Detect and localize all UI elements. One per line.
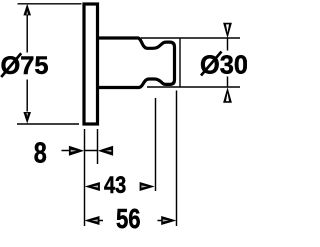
Ø30 dimension line xyxy=(227,38,229,87)
svg-text:8: 8 xyxy=(34,137,47,169)
8 right arrow (points left) xyxy=(98,146,113,156)
Ø75 dimension line xyxy=(26,15,28,112)
56 left arrow (points left) xyxy=(84,216,99,225)
Ø75 bottom extension line xyxy=(17,123,79,125)
waist extension line (43 reference) xyxy=(155,98,157,191)
8 dimension line xyxy=(62,150,98,152)
Ø75 slash xyxy=(1,53,21,77)
43 left arrow (points left) xyxy=(85,182,100,191)
56 dimension line stubs xyxy=(99,220,162,222)
holder body xyxy=(99,38,175,88)
svg-text:O30: O30 xyxy=(200,50,247,80)
svg-text:43: 43 xyxy=(104,172,126,199)
svg-text:56: 56 xyxy=(116,203,141,234)
Ø30 slash xyxy=(201,52,222,76)
Ø75 up arrow xyxy=(23,4,31,16)
Ø75 top extension line xyxy=(18,3,82,5)
Ø75 down arrow xyxy=(23,112,31,124)
plate left extension line xyxy=(84,129,86,226)
svg-text:O75: O75 xyxy=(1,52,49,80)
cup front rim line xyxy=(179,39,181,87)
Ø30 bottom arrow (points up) xyxy=(223,87,232,102)
43 right arrow (points right) xyxy=(140,182,155,191)
Ø30 top arrow (points down) xyxy=(223,23,232,38)
Ø30 bottom extension line xyxy=(147,86,240,88)
plate right extension line xyxy=(97,129,99,164)
56 right arrow (points right) xyxy=(161,216,176,225)
8 left arrow (points right) xyxy=(69,146,84,156)
front face extension line (56 reference) xyxy=(176,91,178,227)
wall plate (side view) xyxy=(84,4,98,124)
Ø30 top extension line xyxy=(141,37,240,39)
